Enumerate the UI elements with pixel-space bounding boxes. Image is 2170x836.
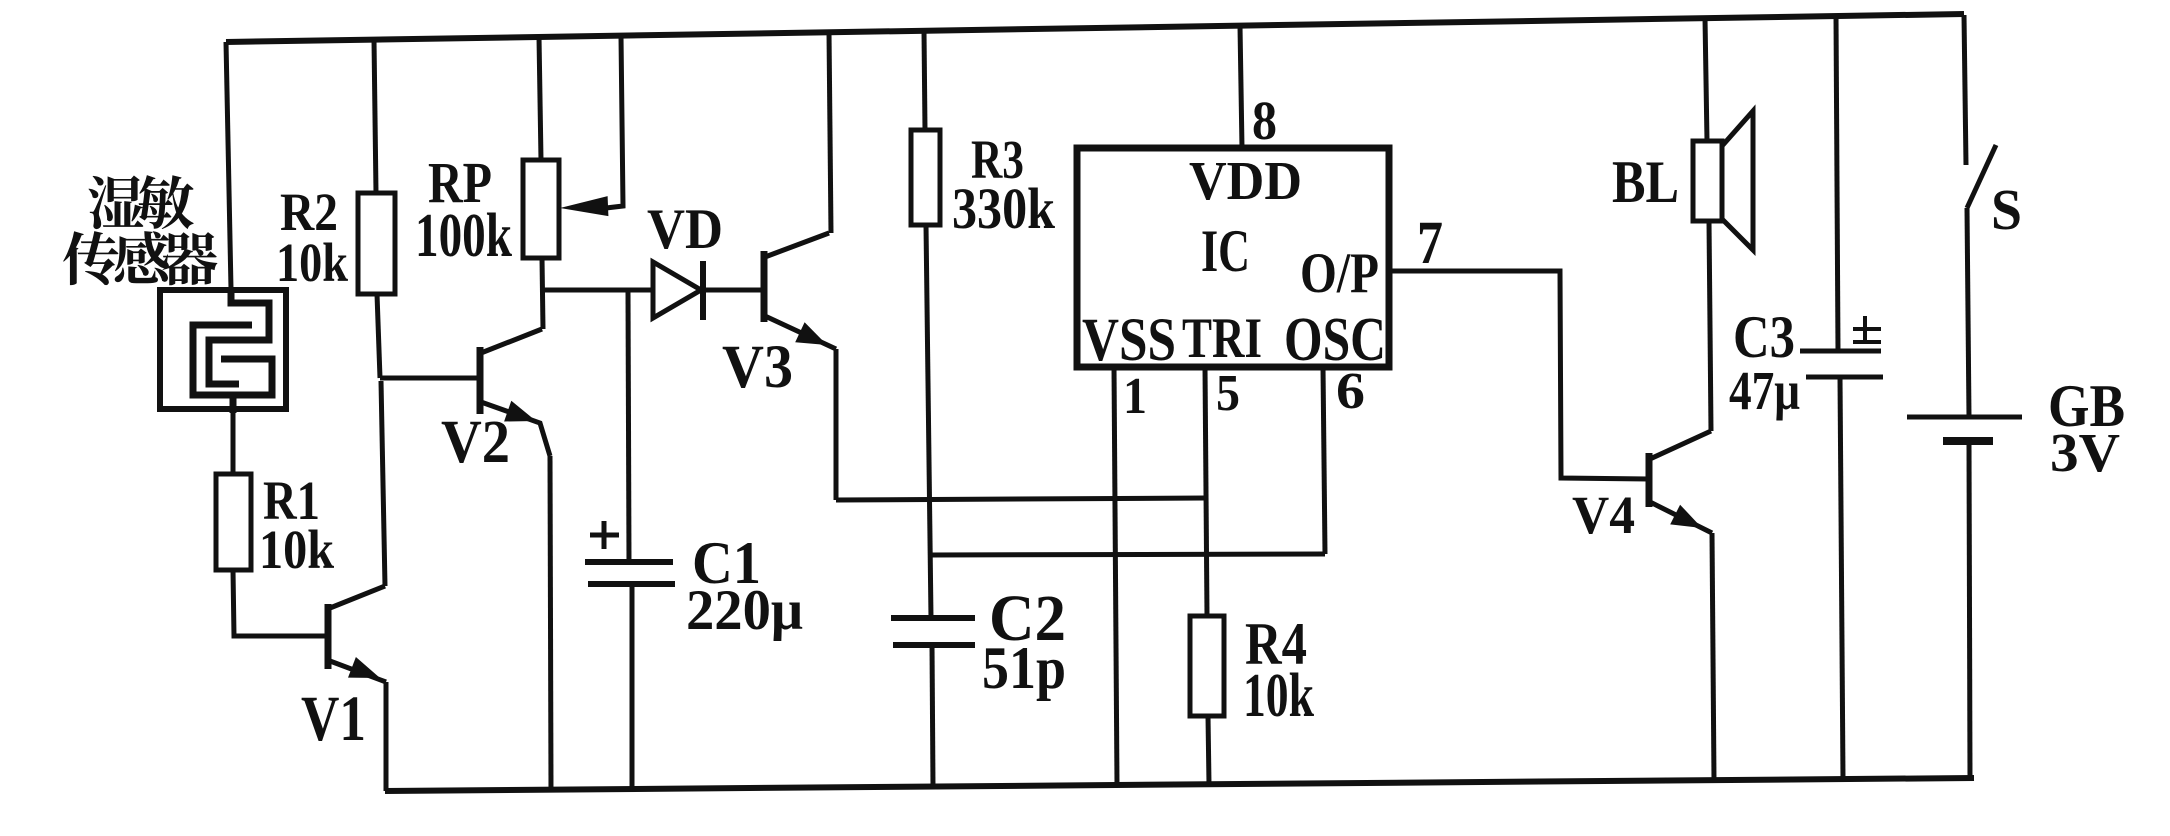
wire pin 6 OSC down <box>1323 367 1325 554</box>
wire rail to BL <box>1705 18 1707 141</box>
capacitor C3 top plate <box>1800 349 1881 354</box>
svg-text:OSC: OSC <box>1284 306 1386 374</box>
wire V3 collector to rail <box>829 32 831 233</box>
diode VD cathode bar <box>700 261 706 320</box>
wire pin 5 TRI down <box>1205 367 1207 616</box>
wire rail to R3 <box>924 31 925 130</box>
transistor V2 base bar <box>477 347 484 414</box>
wire pin 1 VSS to ground <box>1114 367 1117 785</box>
capacitor C3 plus mark <box>1853 316 1881 343</box>
svg-text:3V: 3V <box>2050 422 2120 483</box>
svg-text:330k: 330k <box>952 176 1056 241</box>
wire top supply rail <box>226 14 1964 42</box>
capacitor C3 bottom plate <box>1806 375 1883 380</box>
transistor V4 base bar <box>1646 453 1653 507</box>
capacitor C2 bottom plate <box>893 642 975 648</box>
diode VD triangle <box>653 262 701 318</box>
svg-text:VD: VD <box>647 198 723 261</box>
svg-text:IC: IC <box>1201 218 1250 284</box>
wire switch to battery <box>1967 208 1969 417</box>
capacitor C1 bottom plate <box>588 581 675 587</box>
svg-text:5: 5 <box>1216 365 1240 422</box>
svg-text:BL: BL <box>1612 149 1679 215</box>
potentiometer RP <box>523 160 559 258</box>
wire sensor to R1 <box>231 412 236 474</box>
wire rail to RP <box>539 37 541 160</box>
wire C1 to ground <box>630 584 635 789</box>
capacitor C1 top plate <box>585 559 673 565</box>
transistor V3 emitter arrow <box>795 322 827 345</box>
svg-text:VDD: VDD <box>1189 150 1302 211</box>
wire node down to C1 <box>628 291 629 562</box>
wire R3 bottom to C2 <box>926 225 931 618</box>
transistor V2 emitter arrow <box>504 401 536 422</box>
IC body <box>1077 148 1389 367</box>
transistor V3 emitter <box>765 316 836 349</box>
capacitor C1 plus mark <box>590 521 619 549</box>
wire node to VD anode <box>542 288 654 293</box>
svg-text:TRI: TRI <box>1182 307 1262 370</box>
wire rail to switch S <box>1964 15 1966 165</box>
wire node to V2 base <box>380 376 478 381</box>
wire VD cathode to V3 base <box>703 288 763 293</box>
speaker BL horn <box>1722 111 1753 250</box>
transistor V1 base bar <box>325 604 332 669</box>
transistor V4 emitter <box>1650 502 1712 533</box>
wire RP bottom to V2 collector <box>542 258 543 329</box>
transistor V4 collector <box>1650 431 1711 459</box>
wire rail to sensor <box>226 42 231 289</box>
svg-text:47μ: 47μ <box>1729 360 1800 421</box>
wire rail to R2 <box>374 40 376 193</box>
svg-text:100k: 100k <box>415 202 512 270</box>
svg-text:V1: V1 <box>301 683 366 755</box>
humidity sensor box <box>160 290 286 409</box>
wire OSC node horizontal <box>931 554 1325 555</box>
speaker BL body <box>1693 141 1722 221</box>
wire BL to V4 collector <box>1709 221 1711 431</box>
svg-text:1: 1 <box>1123 368 1147 425</box>
sensor electrode bottom <box>193 325 272 413</box>
resistor R1 <box>216 474 251 570</box>
wire R1 to V1 base <box>233 570 328 636</box>
wire V4 emitter to ground <box>1712 533 1714 780</box>
svg-text:S: S <box>1991 177 2022 242</box>
wire V3 emitter down <box>834 349 839 500</box>
transistor V3 base bar <box>761 251 768 322</box>
wire R4 to ground <box>1208 716 1209 784</box>
svg-text:6: 6 <box>1336 363 1365 420</box>
svg-text:51p: 51p <box>982 635 1066 701</box>
svg-text:O/P: O/P <box>1300 242 1379 305</box>
switch S blade <box>1967 145 1996 208</box>
resistor R4 <box>1190 616 1224 716</box>
transistor V3 collector <box>765 233 829 257</box>
wire pin 8 to rail <box>1240 26 1242 148</box>
wire V1 collector vertical <box>381 381 385 586</box>
wire battery to ground <box>1969 445 1970 778</box>
svg-text:10k: 10k <box>259 519 334 580</box>
label humidity sensor line2 <box>63 231 118 285</box>
wire C3 to ground <box>1840 377 1843 779</box>
svg-text:8: 8 <box>1252 90 1277 151</box>
transistor V2 collector <box>481 329 542 353</box>
battery GB positive plate <box>1907 415 2022 420</box>
svg-text:VSS: VSS <box>1082 307 1176 374</box>
wire V2 emitter to ground <box>550 456 551 790</box>
label humidity sensor line1 <box>88 175 143 229</box>
battery GB negative plate <box>1943 437 1993 445</box>
wire V3 emitter to TRI node <box>836 498 1205 500</box>
svg-text:10k: 10k <box>1243 662 1314 730</box>
wire C2 to ground <box>932 645 933 787</box>
svg-text:V2: V2 <box>441 409 510 476</box>
svg-text:220μ: 220μ <box>686 579 803 642</box>
sensor electrode top <box>209 289 269 384</box>
wire R2 to node <box>377 294 380 378</box>
wire bottom ground rail <box>385 778 1974 791</box>
wire V1 emitter to ground <box>384 682 389 791</box>
wire rail to RP wiper <box>606 36 623 208</box>
capacitor C2 top plate <box>891 615 975 621</box>
svg-text:10k: 10k <box>276 232 348 293</box>
transistor V2 emitter <box>481 402 550 456</box>
svg-text:7: 7 <box>1417 210 1443 277</box>
resistor R3 <box>911 130 940 225</box>
transistor V1 emitter <box>330 661 386 682</box>
transistor V1 emitter arrow <box>348 657 380 678</box>
transistor V1 collector <box>330 586 385 608</box>
RP wiper arrow <box>560 196 608 216</box>
transistor V4 emitter arrow <box>1670 505 1702 528</box>
svg-text:V3: V3 <box>722 334 793 401</box>
wire rail to C3 <box>1836 16 1838 351</box>
wire pin 7 O/P to V4 base <box>1392 271 1649 479</box>
svg-text:V4: V4 <box>1572 485 1635 545</box>
resistor R2 <box>358 193 395 294</box>
